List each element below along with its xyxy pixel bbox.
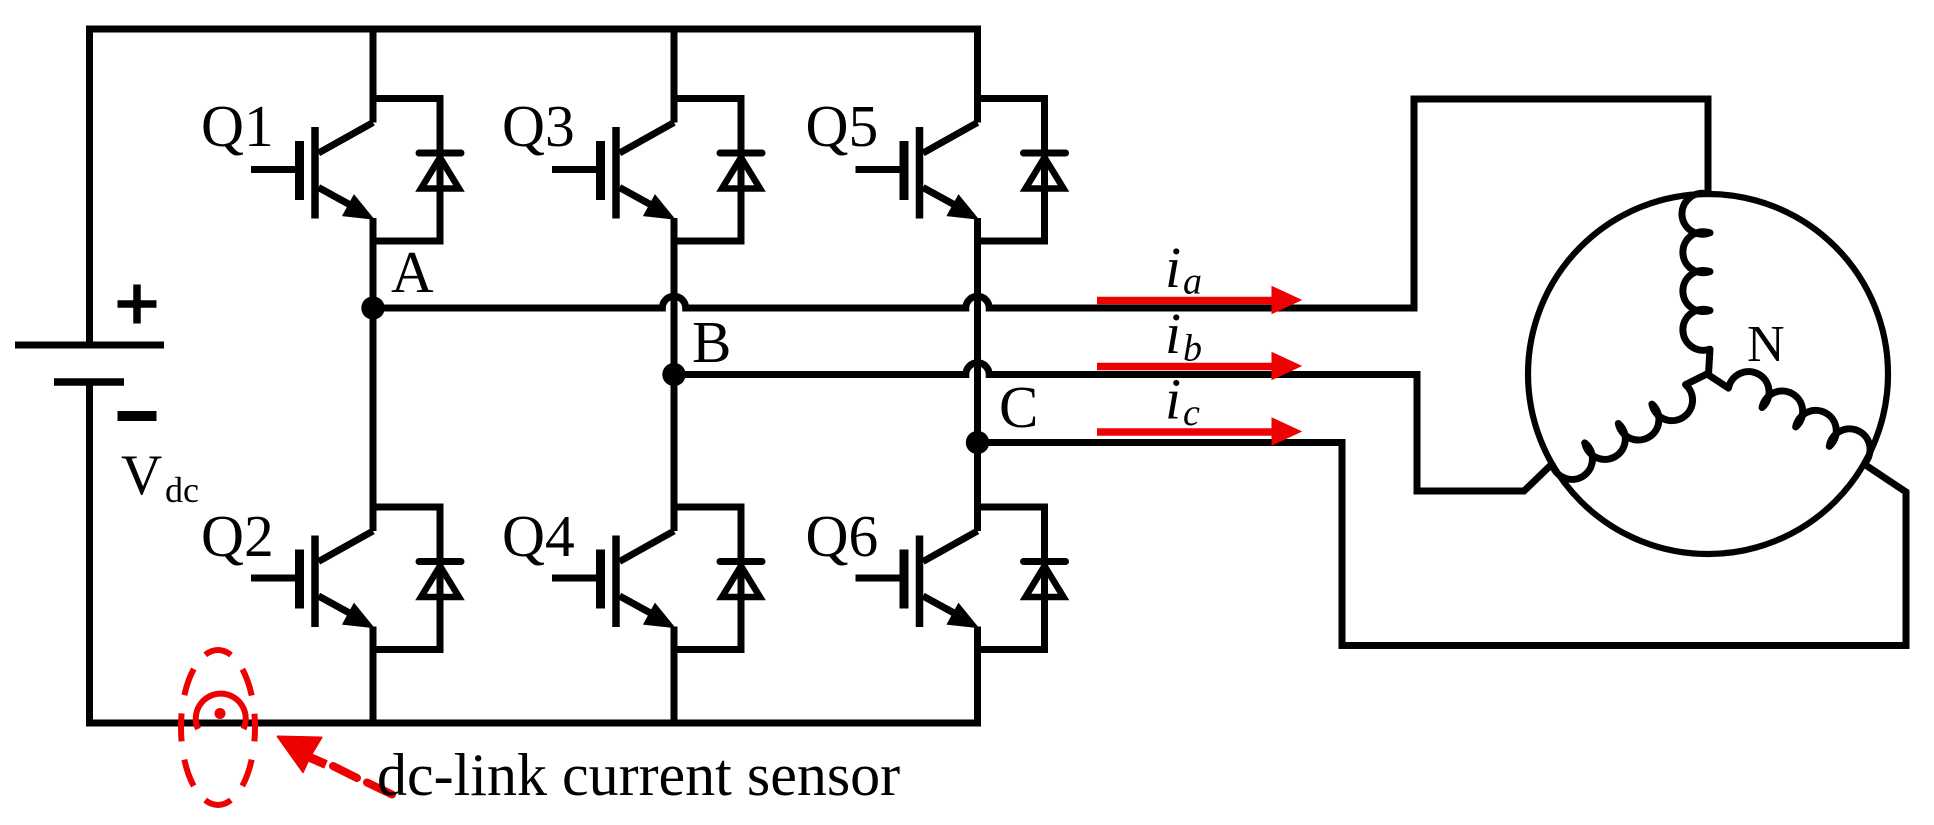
motor winding phase c (1707, 351, 1878, 466)
svg-text:Q2: Q2 (201, 503, 274, 569)
svg-text:c: c (1183, 392, 1200, 434)
battery plus sign (118, 285, 157, 324)
label Q5 (806, 93, 879, 159)
label ia (1165, 235, 1202, 303)
sensor inner arc (196, 694, 246, 729)
current arrow ic (1097, 418, 1301, 445)
battery V_dc negative plate (54, 378, 124, 386)
diode D5 (978, 99, 1066, 242)
sensor dashed ellipse (181, 650, 255, 805)
label Q6 (806, 503, 879, 569)
sensor red dot (215, 708, 226, 719)
battery minus sign (118, 411, 157, 421)
svg-text:N: N (1747, 316, 1785, 373)
label B (692, 309, 731, 375)
label ic (1165, 367, 1200, 435)
svg-text:Q6: Q6 (806, 503, 879, 569)
svg-text:dc-link current sensor: dc-link current sensor (377, 742, 900, 808)
node A dot (361, 296, 384, 319)
wire phase A to motor (373, 99, 1708, 308)
label A (391, 239, 434, 305)
motor winding phase a (1682, 193, 1710, 374)
wire phase C to motor (978, 443, 1907, 646)
wire top rail with left corner (90, 29, 982, 345)
motor winding phase b (1550, 372, 1721, 487)
wire leg B mid vertical (671, 218, 678, 531)
transistor Q6 (856, 531, 978, 627)
svg-text:i: i (1165, 367, 1181, 432)
svg-text:a: a (1183, 261, 1202, 303)
label N neutral point (1747, 316, 1785, 373)
diode D1 (373, 99, 461, 242)
svg-text:Q5: Q5 (806, 93, 879, 159)
wire Q2 emitter to bottom rail (370, 627, 377, 724)
label ib (1165, 301, 1202, 370)
node C dot (966, 431, 989, 454)
motor stator circle (1528, 194, 1888, 554)
label C (999, 374, 1038, 440)
current arrow ia (1097, 287, 1301, 314)
svg-text:Q4: Q4 (502, 503, 575, 569)
diode D3 (674, 99, 762, 242)
node B dot (662, 363, 685, 386)
svg-text:i: i (1165, 235, 1181, 300)
svg-text:Q1: Q1 (201, 93, 274, 159)
label Q3 (502, 93, 575, 159)
svg-text:V: V (121, 444, 162, 507)
wire leg A mid vertical (370, 218, 377, 531)
svg-text:B: B (692, 309, 731, 375)
svg-text:dc: dc (165, 470, 199, 510)
svg-text:Q3: Q3 (502, 93, 575, 159)
label Q2 (201, 503, 274, 569)
label dc-link current sensor (377, 742, 900, 808)
wire Q6 emitter to bottom rail (974, 627, 981, 724)
diode D2 (373, 507, 461, 650)
diode D4 (674, 507, 762, 650)
svg-text:b: b (1183, 328, 1202, 370)
svg-text:C: C (999, 374, 1038, 440)
transistor Q3 (552, 29, 674, 219)
diode D6 (978, 507, 1066, 650)
transistor Q4 (552, 531, 674, 627)
transistor Q5 (856, 29, 978, 219)
wire leg C mid vertical (974, 218, 981, 531)
wire phase B to motor (674, 363, 1552, 491)
current arrow ib (1097, 353, 1301, 380)
svg-text:i: i (1165, 301, 1181, 366)
transistor Q2 (251, 531, 373, 627)
transistor Q1 (251, 29, 373, 219)
svg-text:A: A (391, 239, 434, 305)
wire Q4 emitter to bottom rail (671, 627, 678, 724)
label Q4 (502, 503, 575, 569)
sensor pointer dashed arrow (278, 737, 392, 795)
label Vdc (121, 444, 199, 510)
wire bottom rail with left corner (90, 385, 982, 723)
label Q1 (201, 93, 274, 159)
battery V_dc positive plate (15, 342, 164, 349)
